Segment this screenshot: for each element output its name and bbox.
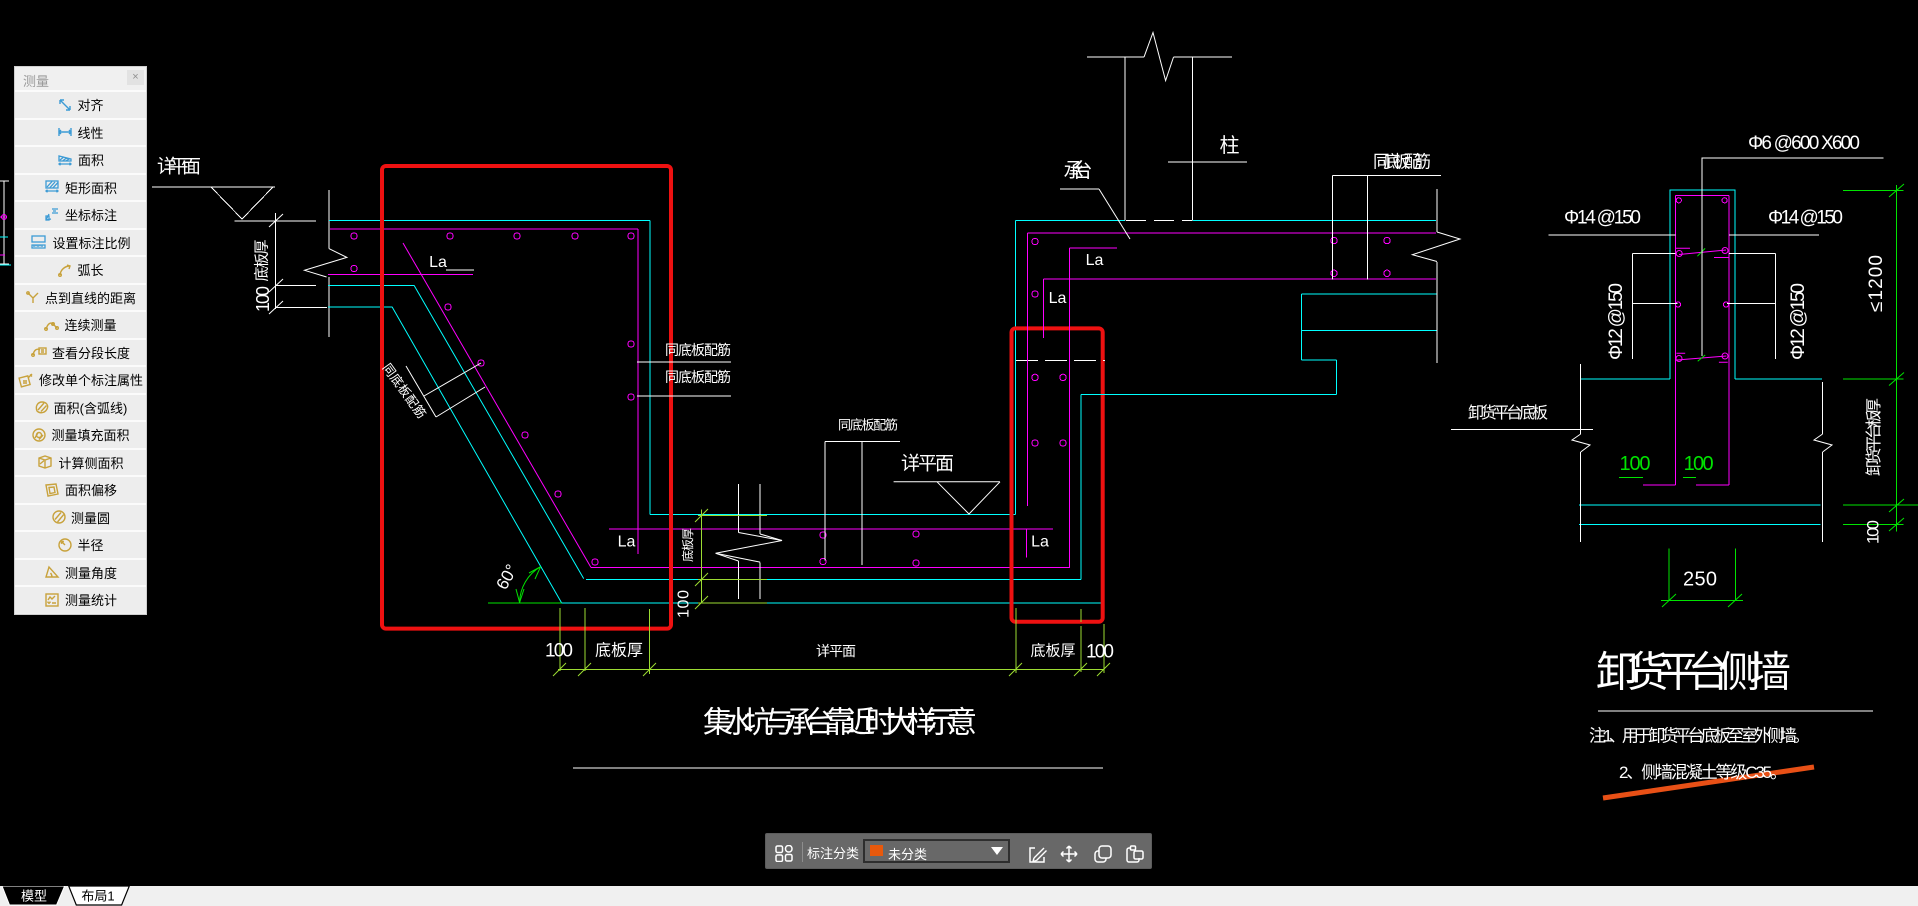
- panel row 点到直线的距离: [15, 283, 146, 311]
- svg-text:100: 100: [1864, 520, 1883, 544]
- left edge cyan fragment: [0, 237, 11, 265]
- pile cap wall outer magenta: [1027, 233, 1029, 506]
- tab bar: [0, 886, 1918, 906]
- panel row 半径: [15, 530, 146, 558]
- pile cap top cyan: [1015, 219, 1436, 221]
- orange strike line: [1603, 767, 1814, 798]
- pile cap wall inner magenta L rebar: [1069, 248, 1117, 568]
- svg-text:La: La: [429, 254, 447, 271]
- panel row 连续测量: [15, 310, 146, 338]
- pit outline cyan: top wall + ledge: [329, 220, 1015, 514]
- red highlight rect 1: [382, 166, 671, 629]
- phi12 brackets: [1633, 254, 1776, 359]
- panel row 线性: [15, 118, 146, 146]
- 柱 label leader: [1168, 161, 1247, 163]
- column above pile cap: [1087, 33, 1232, 221]
- dimension 底板厚/100 (left vertical): [235, 213, 327, 314]
- pile cap circles: [1032, 237, 1390, 446]
- 卸货平台底板 label leader: [1451, 429, 1593, 431]
- svg-text:底板厚: 底板厚: [595, 642, 643, 660]
- svg-text:布局1: 布局1: [81, 889, 114, 904]
- panel row 矩形面积: [15, 173, 146, 201]
- 250 dimension green: [1661, 548, 1743, 607]
- 同底板配筋 right label leader: [1333, 175, 1441, 279]
- pit left wall white edge with break: [328, 190, 330, 337]
- svg-text:La: La: [1086, 252, 1104, 269]
- panel row 面积: [15, 145, 146, 173]
- hidden edge dashes under column: [1126, 219, 1192, 221]
- svg-text:Φ6 @600 X600: Φ6 @600 X600: [1748, 133, 1860, 154]
- La label top-left: [446, 269, 474, 271]
- svg-text:卸货平台侧墙: 卸货平台侧墙: [1596, 649, 1791, 696]
- panel row 查看分段长度: [15, 338, 146, 366]
- svg-text:100: 100: [676, 590, 693, 618]
- lap splice mark upper: [1676, 248, 1729, 258]
- panel row 修改单个标注属性: [15, 365, 146, 393]
- tab 模型 active: [2, 886, 65, 905]
- panel row 测量填充面积: [15, 420, 146, 448]
- panel row 测量统计: [15, 585, 146, 613]
- pile cap bottom step cyan: [1081, 294, 1437, 395]
- 同底板配筋 left pair label leaders: [637, 362, 731, 396]
- svg-text:La: La: [1031, 534, 1049, 551]
- panel row 测量圆: [15, 503, 146, 531]
- phi14 leader: [1548, 234, 1818, 236]
- svg-text:卸货平台底板: 卸货平台底板: [1468, 404, 1548, 422]
- lap splice mark lower: [1676, 353, 1728, 362]
- pit bottom slab cyan: [560, 579, 1102, 602]
- panel row 坐标标注: [15, 200, 146, 228]
- svg-text:注:1、用于卸货平台底板至室外侧墙。: 注:1、用于卸货平台底板至室外侧墙。: [1589, 727, 1810, 746]
- platform slab top cyan: [1581, 378, 1822, 380]
- panel row 面积偏移: [15, 475, 146, 503]
- svg-text:60°: 60°: [492, 561, 521, 593]
- svg-text:100: 100: [1684, 453, 1714, 475]
- svg-text:集水坑与承台靠近时大样示意: 集水坑与承台靠近时大样示意: [703, 707, 977, 740]
- section mark 详平面 (middle): [894, 482, 1000, 514]
- pit magenta lap line La (top-left): [328, 274, 473, 276]
- svg-text:250: 250: [1683, 569, 1717, 591]
- svg-text:La: La: [1049, 290, 1067, 307]
- svg-text:La: La: [618, 534, 636, 551]
- La leader (right of slab): [1026, 529, 1028, 558]
- svg-text:详平面: 详平面: [157, 156, 201, 178]
- svg-text:模型: 模型: [21, 889, 47, 904]
- svg-text:同底板配筋: 同底板配筋: [380, 360, 430, 421]
- slope rebar label box (rotated): [406, 363, 485, 417]
- svg-text:同底板配筋: 同底板配筋: [1373, 153, 1431, 172]
- red highlight rect 2: [1012, 328, 1103, 621]
- panel row 设置标注比例: [15, 228, 146, 256]
- section mark 详平面 (top left): [152, 187, 275, 219]
- main title underline (bottom middle): [573, 767, 1103, 769]
- pit magenta slope rebar: [403, 243, 591, 568]
- 承台 label leader: [1060, 188, 1099, 190]
- wall top corner circles: [1675, 198, 1728, 307]
- panel row 弧长: [15, 255, 146, 283]
- magenta circles bottom slab: [820, 531, 919, 566]
- svg-text:≤1200: ≤1200: [1866, 255, 1887, 312]
- panel row 对齐: [15, 90, 146, 118]
- pit cyan inner lower lines: [328, 285, 414, 307]
- panel row 测量角度: [15, 558, 146, 586]
- svg-text:同底板配筋: 同底板配筋: [665, 342, 731, 358]
- svg-text:底板厚: 底板厚: [680, 528, 695, 562]
- svg-text:100: 100: [253, 286, 273, 312]
- panel row 计算侧面积: [15, 448, 146, 476]
- magenta hooks at bottom: [1643, 484, 1729, 486]
- slab magenta rebar lines: [591, 529, 1070, 568]
- measure panel: [15, 67, 146, 614]
- svg-text:100: 100: [545, 641, 573, 662]
- svg-text:Φ14 @150: Φ14 @150: [1768, 208, 1843, 229]
- svg-text:Φ12 @150: Φ12 @150: [1606, 283, 1627, 360]
- mid dimension 底板厚/100 (green vertical): [695, 509, 767, 609]
- svg-text:同底板配筋: 同底板配筋: [665, 369, 731, 385]
- left edge magenta fragment: [0, 217, 7, 255]
- right cut line white: [1436, 189, 1438, 363]
- svg-text:柱: 柱: [1220, 134, 1240, 157]
- pit cyan slope outer: [392, 285, 584, 603]
- pit bottom slab right wall cyan: [1080, 395, 1082, 580]
- svg-text:卸货平台板厚: 卸货平台板厚: [1865, 398, 1883, 476]
- wall magenta rebar: [1676, 196, 1729, 486]
- title underline (right): [1598, 710, 1873, 712]
- bottom toolbar: [765, 833, 1152, 869]
- slab cut edges white: [1572, 364, 1832, 542]
- svg-text:同底板配筋: 同底板配筋: [838, 418, 898, 433]
- pile cap magenta top rebar: [1028, 233, 1437, 279]
- magenta circles on slope: [445, 304, 598, 565]
- svg-text:底板厚: 底板厚: [1031, 642, 1076, 660]
- svg-text:Φ14 @150: Φ14 @150: [1564, 208, 1641, 229]
- panel row 面积(含弧线): [15, 393, 146, 421]
- svg-text:100: 100: [1086, 642, 1114, 663]
- svg-text:底板厚: 底板厚: [253, 240, 271, 282]
- platform slab bottom cyan lines: [1579, 505, 1821, 524]
- wall cyan outline: [1670, 190, 1735, 379]
- svg-text:Φ12 @150: Φ12 @150: [1788, 283, 1809, 360]
- right break notch: [1412, 232, 1460, 262]
- tab 布局1: [69, 886, 130, 905]
- left edge drawing fragment: [0, 181, 9, 264]
- slab break symbol (white zigzag): [716, 484, 782, 599]
- svg-text:2、侧墙混凝土等级C35。: 2、侧墙混凝土等级C35。: [1619, 763, 1787, 782]
- pit magenta top rebar: [330, 229, 638, 554]
- 60 degree angle annotation (green): [488, 567, 562, 603]
- right dimension line green: [1843, 184, 1918, 531]
- magenta rebar circles top wall: [351, 233, 634, 272]
- svg-text:100: 100: [1620, 453, 1651, 475]
- magenta circles pit right wall: [628, 341, 634, 400]
- svg-text:承台: 承台: [1064, 159, 1093, 182]
- green underlines of 100 100: [1619, 477, 1696, 479]
- phi6 leader horizontal: [1702, 157, 1883, 159]
- bottom dimension chain (green): [553, 608, 1110, 676]
- La2 leader magenta: [1043, 279, 1045, 338]
- dashed leader through red rect 2: [1016, 360, 1105, 362]
- svg-text:详平面: 详平面: [816, 643, 856, 659]
- center vertical leader: [1701, 158, 1703, 356]
- svg-text:详平面: 详平面: [901, 453, 954, 475]
- 同底板配筋 mid label leaders: [825, 442, 900, 566]
